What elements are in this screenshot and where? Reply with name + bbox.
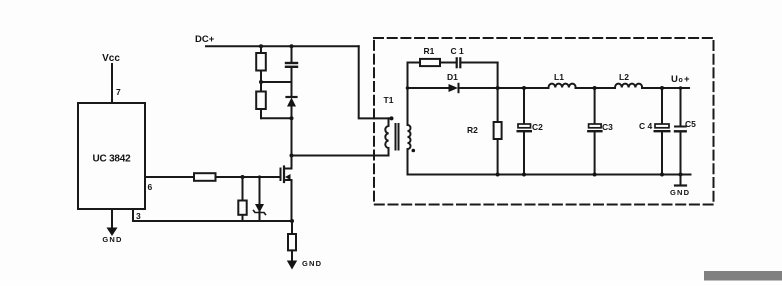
node junction C5 top xyxy=(679,86,683,90)
svg-text:7: 7 xyxy=(116,87,121,97)
svg-text:L1: L1 xyxy=(554,72,564,82)
node junction primary dot xyxy=(390,116,394,120)
svg-text:+: + xyxy=(684,74,690,85)
transformer T1 core xyxy=(396,124,399,150)
capacitor snubber clamp xyxy=(286,46,297,97)
svg-text:GND: GND xyxy=(302,259,322,268)
node junction C4 top xyxy=(660,86,664,90)
svg-text:C3: C3 xyxy=(602,122,613,132)
node junction snubber bottom xyxy=(290,116,294,120)
resistor R2 load xyxy=(494,88,502,175)
capacitor C1 xyxy=(457,58,461,67)
svg-text:U: U xyxy=(671,74,678,85)
inductor L1 xyxy=(549,84,576,88)
capacitor C2 xyxy=(518,88,531,175)
diode clamp xyxy=(287,97,297,156)
wire DC+ rail xyxy=(206,45,359,47)
ground below U1 xyxy=(107,209,118,236)
svg-text:R1: R1 xyxy=(424,46,435,56)
wire drain to primary bottom xyxy=(292,148,389,156)
pin 3 stub from U1 xyxy=(132,209,134,221)
resistor R4 gate pulldown xyxy=(238,177,246,221)
resistor snubber upper xyxy=(256,46,266,91)
node junction R2 bottom xyxy=(496,173,500,177)
ground terminal output xyxy=(675,175,686,186)
svg-text:6: 6 xyxy=(148,182,153,192)
node junction R2 top xyxy=(496,86,500,90)
wire DC rail to primary top xyxy=(359,46,392,118)
wire output bottom rail xyxy=(408,174,691,176)
node junction C3 top xyxy=(593,86,597,90)
svg-text:D1: D1 xyxy=(447,72,458,82)
transformer T1 primary winding xyxy=(385,118,388,155)
wire snubber mid link xyxy=(261,81,292,83)
svg-text:o: o xyxy=(679,77,683,84)
node junction snubber mid xyxy=(259,80,263,84)
svg-text:R2: R2 xyxy=(467,125,478,135)
svg-text:C5: C5 xyxy=(685,119,696,129)
decorative grey bar xyxy=(704,271,782,281)
node junction secondary top xyxy=(406,86,410,90)
svg-text:L2: L2 xyxy=(619,72,629,82)
diode D1 rectifier xyxy=(449,84,459,92)
wire pin 3 row xyxy=(133,220,292,222)
node junction source row xyxy=(290,219,294,223)
wire output main line xyxy=(408,87,690,89)
wire snubber bottom link xyxy=(261,117,292,119)
wire RC snubber branch top xyxy=(408,63,498,89)
svg-text:C 1: C 1 xyxy=(451,46,465,56)
node junction C5 bottom xyxy=(679,173,683,177)
resistor R1 xyxy=(420,59,440,66)
node junction C2 top xyxy=(522,86,526,90)
capacitor C3 xyxy=(588,88,601,175)
node junction drain xyxy=(290,154,294,158)
node junction C4 bottom xyxy=(660,173,664,177)
dashed enclosure output module xyxy=(374,38,714,205)
zener diode D2 gate clamp xyxy=(254,177,266,221)
resistor R3 gate series xyxy=(194,173,216,181)
transistor Q1 MOSFET xyxy=(281,156,292,222)
resistor snubber lower xyxy=(256,92,266,119)
svg-text:C2: C2 xyxy=(532,122,543,132)
capacitor C5 xyxy=(675,88,686,175)
svg-text:C 4: C 4 xyxy=(639,121,653,131)
svg-text:GND: GND xyxy=(102,235,122,244)
node junction zener top xyxy=(258,175,261,178)
svg-text:GND: GND xyxy=(670,188,690,197)
svg-text:3: 3 xyxy=(136,211,141,221)
transformer T1 secondary winding xyxy=(408,63,411,175)
wire Vcc to pin 7 xyxy=(111,64,113,103)
node junction C3 bottom xyxy=(593,173,597,177)
node junction gate divider xyxy=(241,175,245,179)
node junction DC rail right xyxy=(290,44,294,48)
inductor L2 xyxy=(615,84,642,88)
op-amp U1 UC3842 IC body xyxy=(78,103,145,209)
svg-text:UC 3842: UC 3842 xyxy=(92,154,131,165)
node junction C2 bottom xyxy=(522,173,526,177)
resistor R5 source sense xyxy=(288,221,296,261)
wire pin 6 to gate xyxy=(145,176,281,178)
ground at source resistor xyxy=(287,261,297,270)
svg-text:Vcc: Vcc xyxy=(102,53,120,64)
svg-text:DC+: DC+ xyxy=(195,34,215,45)
node junction DC rail left xyxy=(259,44,263,48)
capacitor C4 xyxy=(655,88,670,175)
svg-text:T1: T1 xyxy=(384,95,394,105)
node secondary polarity dot xyxy=(412,149,416,153)
